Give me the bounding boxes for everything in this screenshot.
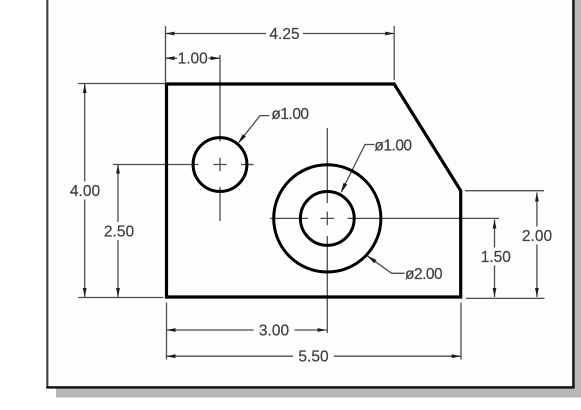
arrow 5.50 left xyxy=(167,354,176,358)
frame border bottom xyxy=(46,386,574,388)
svg-text:5.50: 5.50 xyxy=(298,349,329,366)
dimension line 2.50 xyxy=(117,165,119,298)
svg-text:4.25: 4.25 xyxy=(269,26,299,43)
svg-text:2.00: 2.00 xyxy=(522,228,553,245)
leader line for inner circle label xyxy=(342,145,375,192)
frame border right xyxy=(572,0,574,388)
big circle vertical centerline lower (3.00 dim extension) xyxy=(326,236,328,333)
arrow 1.00 right xyxy=(211,56,220,60)
svg-text:1.00: 1.00 xyxy=(178,51,209,68)
svg-text:1.50: 1.50 xyxy=(481,249,512,266)
dimension line 1.00 xyxy=(166,57,220,59)
arrow 1.00 left xyxy=(166,56,175,60)
arrow 5.50 right xyxy=(452,354,461,358)
small circle horizontal centerline right xyxy=(241,164,254,166)
arrow 2.50 top xyxy=(116,165,120,174)
small circle vertical centerline upper (doubles as 1.00 dim extension) xyxy=(219,55,221,142)
arrow leader inner circle xyxy=(341,183,348,194)
big circle center cross xyxy=(321,212,335,226)
arrow 1.50 top xyxy=(493,220,497,229)
leader line for outer circle label xyxy=(368,256,405,273)
small circle vertical centerline lower xyxy=(219,187,221,221)
leader line for small circle label xyxy=(239,116,270,143)
extension line below bottom-left corner (3.00/5.50 left) xyxy=(166,303,168,360)
arrow 4.25 right xyxy=(385,32,394,36)
extension line below bottom-right corner (5.50 right) xyxy=(460,303,462,360)
extension line left of bottom-left corner (4.00/2.50 bottom) xyxy=(78,297,164,299)
dimension line 4.25 xyxy=(166,33,395,35)
big circle vertical centerline upper xyxy=(326,128,328,203)
extension line above-left of part (4.00 dim top) xyxy=(78,83,165,85)
arrow 4.00 top xyxy=(83,84,87,93)
dimension line 4.00 xyxy=(84,84,86,297)
dimension line 2.00 xyxy=(536,193,538,298)
small circle horizontal centerline left (2.50 dim extension) xyxy=(113,164,199,166)
small hole circle Ø1.00 xyxy=(193,138,247,192)
big circle horizontal centerline left xyxy=(270,217,308,219)
svg-text:4.00: 4.00 xyxy=(70,183,101,200)
extension line right of bottom-right corner (2.00/1.50 bottom) xyxy=(466,297,545,299)
svg-text:ø1.00: ø1.00 xyxy=(374,138,412,155)
arrow leader outer circle xyxy=(367,255,377,263)
svg-text:2.50: 2.50 xyxy=(104,224,135,241)
dimension line 5.50 xyxy=(167,355,461,357)
arrow 3.00 left xyxy=(167,328,176,332)
drop shadow right xyxy=(575,0,581,398)
big hole inner circle Ø1.00 xyxy=(300,192,354,246)
svg-text:ø2.00: ø2.00 xyxy=(405,266,443,283)
arrow leader small circle xyxy=(238,134,246,144)
arrow 2.00 bottom xyxy=(535,288,539,297)
svg-text:3.00: 3.00 xyxy=(259,323,290,340)
part outline xyxy=(167,84,461,297)
arrow 3.00 right xyxy=(318,328,327,332)
arrow 2.00 top xyxy=(535,193,539,202)
big circle horizontal centerline right (1.50 dim extension) xyxy=(348,217,500,219)
arrow 2.50 bottom xyxy=(116,288,120,297)
arrow 4.25 left xyxy=(166,32,175,36)
big hole outer circle Ø2.00 xyxy=(274,165,381,272)
frame border left xyxy=(46,0,48,388)
svg-text:ø1.00: ø1.00 xyxy=(271,106,309,123)
extension line right of chamfer end (2.00 top) xyxy=(465,190,544,192)
arrow 1.50 bottom xyxy=(493,288,497,297)
small circle center cross xyxy=(213,158,226,171)
dimension line 3.00 xyxy=(167,329,327,331)
drop shadow bottom xyxy=(56,389,581,398)
extension line left (for 4.25 and 1.00 dims) xyxy=(165,26,167,82)
arrow 4.00 bottom xyxy=(83,288,87,297)
dimension line 1.50 xyxy=(494,220,496,298)
extension line right of 4.25 dim xyxy=(393,26,395,80)
